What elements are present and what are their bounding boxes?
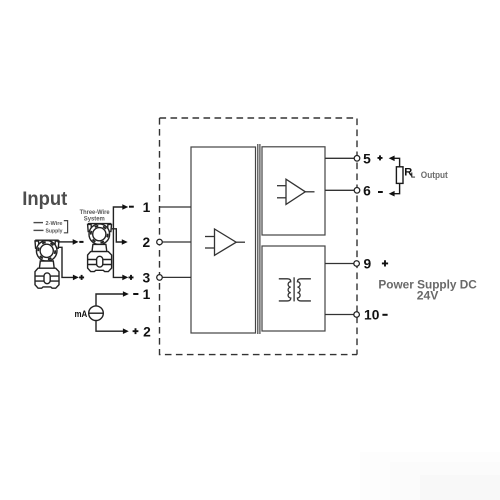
arrowhead into terminal 3 <box>122 275 128 281</box>
power converter block <box>262 246 325 331</box>
wire CS1 to terminal -1 <box>96 294 123 306</box>
svg-text:mA: mA <box>75 309 88 319</box>
wire T2 plus lead to terminal 3 row <box>58 247 74 277</box>
svg-text:9: 9 <box>364 257 372 272</box>
wire block to terminal 9 <box>325 263 357 265</box>
svg-text:2: 2 <box>142 235 150 250</box>
wire terminal1 into block <box>160 206 192 208</box>
svg-text:3: 3 <box>142 271 150 286</box>
dashed enclosure box <box>160 118 358 355</box>
node terminal 3 <box>157 275 163 281</box>
node terminal 6 <box>354 188 360 194</box>
arrowhead into 6 <box>389 191 395 197</box>
wire block to terminal 10 <box>325 314 357 316</box>
sign minus 10 <box>382 314 387 316</box>
op-amp U2 <box>277 179 315 204</box>
svg-text:6: 6 <box>363 183 371 198</box>
arrowhead into terminal +2 <box>123 328 129 334</box>
legend 2-wire <box>34 223 44 231</box>
wire T3 to terminal 2 <box>112 229 123 242</box>
svg-text:Supply: Supply <box>46 229 63 235</box>
arrowhead T2 plus <box>73 275 79 281</box>
wire T3 to terminal 3 <box>113 225 122 277</box>
wire CS1 to terminal +2 <box>96 321 123 332</box>
node terminal 2 <box>157 239 163 245</box>
wire terminal2 into block <box>160 241 192 243</box>
load resistor RL wiring <box>394 158 400 193</box>
svg-text:L: L <box>411 170 416 179</box>
sign minus T2 row2 <box>79 241 83 243</box>
arrowhead into 5 <box>389 156 395 162</box>
wire T2 minus lead to terminal 2 row <box>58 241 74 243</box>
op-amp U1 <box>205 229 245 255</box>
resistor RL <box>396 167 403 184</box>
node terminal 5 <box>354 156 360 162</box>
svg-text:1: 1 <box>143 287 151 302</box>
terminal sign plus row3 <box>129 275 134 280</box>
svg-text:10: 10 <box>364 308 380 323</box>
svg-text:2-Wire: 2-Wire <box>46 221 63 227</box>
output amplifier block <box>262 147 325 235</box>
legend bracket <box>64 221 68 233</box>
node terminal 9 <box>354 261 360 267</box>
wire block to terminal 6 <box>325 189 357 191</box>
svg-text:5: 5 <box>363 151 371 166</box>
sign plus 9 <box>382 260 388 266</box>
svg-text:2: 2 <box>143 324 151 339</box>
wire block to terminal 5 <box>325 157 357 159</box>
transmitter T3 (3-wire) <box>88 223 112 272</box>
sign minus row-1 <box>133 293 138 295</box>
sign minus 6 <box>378 191 383 193</box>
arrowhead T2 minus <box>73 239 79 245</box>
svg-text:Output: Output <box>421 170 449 181</box>
svg-text:24V: 24V <box>417 288 440 302</box>
input amplifier block <box>191 147 256 333</box>
terminal sign minus row1 <box>129 206 134 208</box>
arrowhead into terminal 2 <box>122 239 128 245</box>
wire T3 to terminal 1 <box>113 207 122 225</box>
arrowhead into terminal 1 <box>122 204 128 210</box>
transmitter T2 (2-wire) <box>35 239 59 288</box>
mA current source CS1 <box>89 306 104 321</box>
svg-text:1: 1 <box>143 200 151 215</box>
svg-text:Input: Input <box>22 188 67 210</box>
wire terminal3 into block <box>160 276 192 278</box>
node terminal 10 <box>354 312 360 318</box>
sign plus row+2 <box>133 328 139 334</box>
transformer T1 <box>279 277 311 301</box>
arrowhead into terminal -1 <box>123 291 129 297</box>
watermark remnant <box>360 452 500 500</box>
svg-text:System: System <box>84 215 105 222</box>
sign plus T2 row3 <box>79 275 84 280</box>
isolation barrier <box>258 144 260 334</box>
sign plus 5 <box>378 155 383 160</box>
